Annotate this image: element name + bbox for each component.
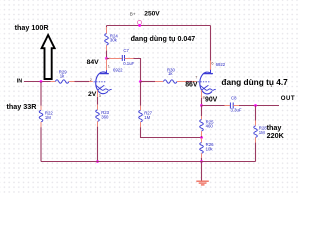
svg-text:6922: 6922	[113, 67, 123, 72]
label IN	[17, 78, 22, 84]
junction IN node	[40, 80, 43, 83]
svg-text:220K: 220K	[267, 131, 285, 140]
tube V2 grid dashed	[198, 81, 211, 83]
wire left column down from IN junction	[40, 82, 42, 111]
junction J2 grid node	[139, 80, 142, 83]
wire R24 to junction J1	[106, 45, 108, 58]
wire J7 to R26	[201, 138, 203, 143]
wire cathode2 J5 down to R25	[201, 106, 203, 120]
wire left column from rail to R24	[106, 26, 108, 34]
svg-text:C8: C8	[231, 95, 237, 100]
svg-text:1M: 1M	[259, 130, 265, 135]
label 2V	[88, 91, 97, 98]
label C7	[123, 48, 129, 53]
wire R27 down and right to cathode2 column	[141, 122, 202, 138]
junction bottom rail left tube	[96, 160, 99, 163]
resistor R29	[55, 80, 69, 83]
junction J6 output/R28	[254, 104, 257, 107]
label thay 100R	[15, 23, 50, 32]
tube V1 grid dashed	[94, 81, 107, 83]
svg-text:thay 33R: thay 33R	[7, 102, 38, 111]
wire IN to junction	[24, 81, 55, 83]
label dang dung tu 0.047	[131, 35, 196, 43]
svg-text:6922: 6922	[216, 62, 226, 67]
wire R26 to bottom rail	[201, 153, 203, 161]
label R22 1M	[45, 111, 53, 120]
svg-text:460: 460	[206, 124, 214, 129]
wire ground stub	[201, 162, 203, 181]
label dang dung tu 4.7	[221, 77, 288, 87]
svg-text:360: 360	[101, 114, 109, 119]
svg-text:IN: IN	[17, 78, 22, 84]
wire C8 to OUT	[233, 105, 279, 107]
wire tube V1 cathode lead	[97, 90, 99, 97]
label R27 1M	[144, 111, 152, 120]
junction at B+ node	[138, 24, 141, 27]
resistor R26	[200, 143, 204, 154]
label R26 10k	[206, 142, 214, 151]
pin 1	[108, 64, 110, 68]
resistor R28	[254, 126, 258, 138]
svg-text:1M: 1M	[144, 115, 150, 120]
wire C7 to corner and down to J2	[125, 59, 141, 82]
tube V1 6922 envelope	[96, 72, 108, 94]
wire cathode1 down	[97, 97, 99, 110]
svg-text:2: 2	[90, 78, 92, 82]
junction J5 cathode output	[200, 104, 203, 107]
label 3.3uF	[231, 107, 242, 112]
arrow up annotation	[42, 35, 55, 79]
wire R30 to tube2 grid	[177, 81, 196, 83]
resistor R22	[39, 110, 43, 122]
svg-text:10k: 10k	[206, 146, 214, 151]
svg-text:OUT: OUT	[281, 95, 295, 102]
wire bottom rail	[41, 161, 256, 163]
node B+ port circle	[137, 20, 141, 24]
svg-text:C7: C7	[123, 48, 129, 53]
pin 3	[99, 94, 101, 98]
wire J2 down to R27	[140, 82, 142, 111]
label B+	[130, 11, 136, 16]
tube V2 plate	[204, 70, 213, 74]
svg-text:3: 3	[99, 94, 101, 98]
wire R23 to bottom rail	[97, 121, 99, 161]
resistor R25	[200, 120, 204, 132]
capacitor C8	[230, 103, 233, 109]
svg-text:B+: B+	[130, 11, 136, 16]
label 6922 tube1	[113, 67, 123, 72]
label OUT	[281, 95, 295, 102]
wire J6 down to R28	[255, 106, 257, 126]
junction J1 anode/C7	[105, 57, 108, 60]
label R24 30k	[110, 33, 118, 42]
label thay 220K	[267, 123, 285, 140]
wire J2 to R30	[141, 81, 164, 83]
label R25 460	[206, 119, 214, 128]
ground symbol	[196, 181, 209, 185]
pin 6	[211, 61, 213, 65]
label 84V	[87, 59, 100, 66]
svg-text:đang dùng tụ 0.047: đang dùng tụ 0.047	[131, 35, 196, 43]
wire tube V2 cathode lead	[201, 90, 203, 98]
label thay 33R	[7, 102, 38, 111]
svg-text:86V: 86V	[185, 82, 198, 89]
tube V1 cathode	[96, 85, 112, 90]
svg-text:2V: 2V	[88, 91, 97, 98]
pin 2	[90, 78, 92, 82]
grid dots background	[0, 0, 300, 194]
resistor R27	[139, 110, 143, 122]
svg-text:90V: 90V	[205, 97, 218, 104]
wire R28 to bottom rail corner	[255, 137, 257, 161]
wire anode tube2 from rail	[210, 26, 212, 72]
svg-text:1: 1	[108, 64, 110, 68]
svg-text:0.1uF: 0.1uF	[123, 61, 134, 66]
svg-text:7: 7	[195, 76, 197, 80]
label R30 1k	[167, 67, 175, 76]
label 86V	[185, 82, 198, 89]
pin 8	[203, 95, 205, 99]
pin 7	[195, 76, 197, 80]
wire tube V1 anode stub	[106, 59, 108, 71]
tube V2 cathode	[200, 85, 216, 90]
svg-text:đang dùng tụ 4.7: đang dùng tụ 4.7	[221, 77, 288, 87]
svg-text:3.3uF: 3.3uF	[231, 107, 242, 112]
label R28 1M	[259, 126, 267, 135]
resistor R23	[96, 110, 100, 122]
svg-text:250V: 250V	[144, 11, 160, 18]
wire J5 to C8	[202, 105, 231, 107]
label R29 1k	[59, 70, 67, 79]
label R23 360	[101, 110, 109, 119]
resistor R30	[163, 80, 177, 83]
svg-text:thay 100R: thay 100R	[15, 23, 50, 32]
resistor R24	[105, 34, 109, 46]
svg-text:6: 6	[211, 61, 213, 65]
junction bottom rail ground	[200, 160, 203, 163]
tube V2 6922 envelope	[200, 72, 212, 94]
label 90V	[205, 97, 218, 104]
capacitor C7	[122, 55, 124, 61]
wire top rail B+	[107, 25, 211, 27]
wire J1 to C7	[107, 58, 123, 60]
svg-text:84V: 84V	[87, 59, 100, 66]
label 250V	[144, 11, 160, 18]
wire R29 to tube1 grid	[69, 81, 93, 83]
label 6922 tube2	[216, 62, 226, 67]
label C8	[231, 95, 237, 100]
wire R22 to bottom rail	[40, 122, 42, 162]
junction J7 R25/R26/R27	[200, 136, 203, 139]
tube V1 plate	[100, 70, 109, 74]
label 0.1uF	[123, 61, 134, 66]
svg-text:1M: 1M	[45, 115, 51, 120]
wire cathode2 to output junction	[201, 98, 203, 106]
svg-text:30k: 30k	[110, 38, 118, 43]
wire R25 to J7	[201, 131, 203, 137]
